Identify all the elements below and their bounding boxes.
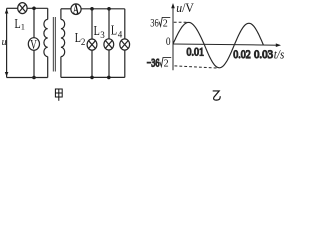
svg-text:2: 2 (164, 58, 169, 70)
node: bottom junction of voltmeter branch (32, 76, 36, 80)
lamp L2 (87, 39, 97, 50)
svg-text:1: 1 (21, 21, 25, 31)
svg-text:2: 2 (163, 17, 168, 29)
svg-text:3: 3 (100, 30, 105, 40)
svg-text:0: 0 (166, 36, 171, 48)
transformer core (52, 17, 54, 72)
node: top junction of voltmeter branch (32, 7, 36, 11)
lamp L4 (120, 39, 130, 50)
wire: secondary bottom return (61, 76, 125, 78)
wire: L4 branch upper (124, 9, 126, 39)
wire: secondary coil bottom lead (60, 57, 62, 78)
wire: primary coil bottom lead (47, 57, 49, 78)
wire: secondary top to ammeter (61, 8, 71, 10)
node: bottom junction lamp L3 branch (107, 76, 111, 80)
wire: primary top from source to lamp L1 (7, 7, 18, 9)
wire: L2 branch upper (91, 9, 93, 39)
svg-text:0.02: 0.02 (233, 47, 251, 61)
wire: primary coil top lead (47, 8, 49, 19)
transformer primary coil (44, 19, 48, 56)
caption jia (figure a) (55, 89, 62, 101)
node: top junction lamp L2 branch (90, 7, 94, 11)
voltmeter V (28, 38, 39, 51)
caption yi (figure b) (213, 91, 221, 100)
source up arrow (5, 9, 9, 14)
svg-text:L: L (111, 24, 117, 39)
svg-text:0.01: 0.01 (187, 44, 205, 58)
svg-text:A: A (73, 2, 79, 17)
wire: L2 branch lower (91, 50, 93, 77)
lamp L1 (18, 3, 27, 14)
wire: ammeter to right corner (81, 8, 125, 10)
dashed level +36sqrt2 (174, 21, 189, 23)
graph x-axis (173, 44, 280, 45)
wire: voltmeter branch lower (33, 50, 35, 77)
y tick label +36sqrt2 (150, 16, 159, 30)
wire: L3 branch upper (108, 9, 110, 39)
wire: primary bottom return (7, 77, 48, 79)
svg-text:L: L (94, 24, 100, 39)
svg-text:2: 2 (81, 37, 86, 47)
graph y-axis (172, 5, 174, 71)
sine curve u(t) (173, 22, 263, 67)
wire: left source vertical (6, 8, 8, 77)
transformer secondary coil (61, 19, 65, 56)
source down arrow (5, 72, 9, 77)
svg-text:4: 4 (118, 29, 123, 39)
node: bottom junction lamp L2 branch (90, 76, 94, 80)
wire: voltmeter branch upper (33, 8, 35, 37)
wire: L3 branch lower (108, 50, 110, 77)
svg-text:−36: −36 (147, 56, 160, 70)
svg-text:0.03: 0.03 (254, 47, 273, 61)
ammeter A (71, 4, 81, 15)
wire: secondary coil top lead (60, 9, 62, 20)
wire: L4 branch lower (124, 50, 126, 77)
dashed level -36sqrt2 (175, 66, 219, 68)
lamp L3 (104, 39, 114, 50)
node: top junction lamp L3 branch (107, 7, 111, 11)
svg-text:u/V: u/V (176, 0, 194, 15)
svg-text:t/s: t/s (274, 47, 285, 61)
svg-text:u: u (2, 37, 7, 48)
svg-text:36: 36 (150, 16, 159, 30)
wire: lamp L1 to primary coil (27, 7, 48, 9)
